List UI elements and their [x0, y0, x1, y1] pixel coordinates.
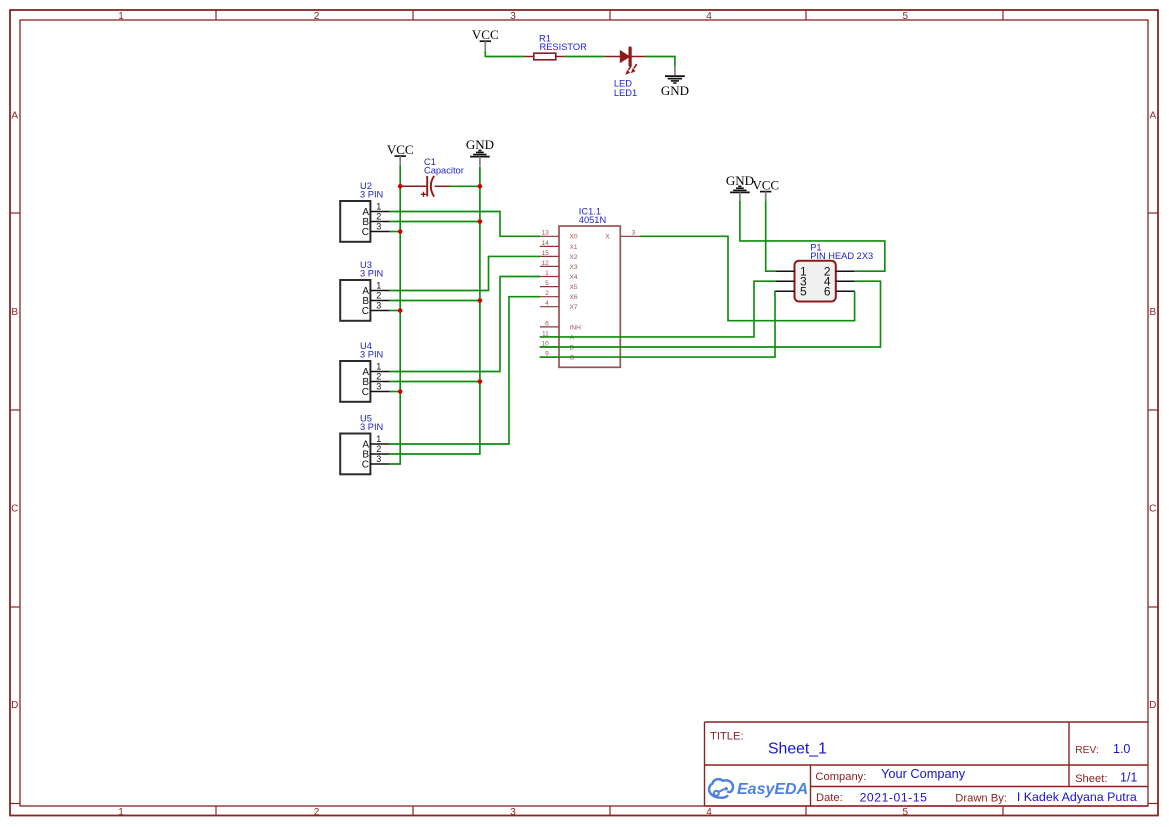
svg-text:LED1: LED1 — [614, 88, 637, 98]
wire IC1.1 pin11 A to P1 pin3 — [540, 281, 776, 337]
U2 pin 1 (A) — [370, 211, 389, 213]
svg-text:C: C — [11, 504, 18, 515]
svg-text:3 PIN: 3 PIN — [360, 349, 383, 359]
svg-text:Date:: Date: — [816, 792, 843, 804]
svg-text:B: B — [570, 344, 575, 351]
svg-text:D: D — [1149, 700, 1156, 711]
svg-text:Sheet_1: Sheet_1 — [768, 741, 827, 758]
wire U3 pin2 to GND column — [390, 300, 480, 302]
P1 pin 1 — [775, 270, 794, 272]
EasyEDA logo — [709, 779, 733, 798]
svg-text:2: 2 — [314, 11, 320, 22]
svg-text:X3: X3 — [570, 264, 578, 271]
svg-text:PIN HEAD 2X3: PIN HEAD 2X3 — [810, 251, 873, 261]
IC1.1 pin 10 (B) — [540, 346, 559, 348]
svg-text:2: 2 — [376, 212, 381, 222]
svg-text:A: A — [570, 334, 575, 341]
junction — [398, 389, 403, 394]
wire U3 pin1 to IC1.1 pin15 — [390, 256, 540, 290]
svg-text:X: X — [605, 234, 610, 241]
junction — [478, 298, 483, 303]
IC1.1 pin 9 (C) — [540, 356, 559, 358]
wire R1 to LED1 — [565, 56, 605, 58]
IC1.1 pin 6 (INH) — [540, 326, 559, 328]
svg-text:Your Company: Your Company — [881, 766, 966, 781]
svg-text:Capacitor: Capacitor — [424, 166, 464, 176]
svg-text:Company:: Company: — [815, 771, 866, 783]
U5 pin 1 (A) — [370, 443, 389, 445]
svg-text:VCC: VCC — [472, 27, 499, 42]
IC1.1 pin 5 (X5) — [540, 286, 559, 288]
wire C1 to GND column — [450, 185, 480, 187]
svg-text:5: 5 — [903, 11, 909, 22]
svg-text:D: D — [11, 700, 18, 711]
P1 pin 3 — [775, 280, 794, 282]
LED LED1 — [605, 56, 621, 58]
connector P1 PIN HEAD 2X3 body — [795, 261, 836, 302]
svg-text:C: C — [1149, 504, 1156, 515]
svg-text:X1: X1 — [570, 244, 578, 251]
U4 pin 3 (C) — [370, 391, 389, 393]
U4 pin 1 (A) — [370, 371, 389, 373]
svg-text:2: 2 — [545, 290, 549, 297]
svg-text:6: 6 — [824, 285, 831, 299]
IC1.1 pin 1 (X4) — [540, 276, 559, 278]
svg-text:3: 3 — [510, 11, 516, 22]
op-amp U1 : multiplexer IC1.1 4051N body — [559, 226, 620, 367]
svg-text:C: C — [362, 387, 369, 398]
LED1 emission arrows — [625, 64, 636, 75]
wire VCC to R1 — [485, 51, 525, 57]
wire IC1.1 pin9 C to P1 pin5 — [540, 291, 776, 357]
svg-text:X5: X5 — [570, 284, 578, 291]
capacitor C1 — [402, 185, 426, 187]
svg-text:13: 13 — [541, 230, 549, 237]
svg-text:1: 1 — [376, 434, 381, 444]
wire U2 pin3 to VCC column — [390, 231, 401, 233]
svg-text:VCC: VCC — [387, 142, 414, 157]
svg-text:Sheet:: Sheet: — [1075, 773, 1107, 785]
junction — [478, 219, 483, 224]
P1 pin 2 — [836, 270, 855, 272]
wire U4 pin2 to GND column — [390, 381, 480, 383]
U2 pin 2 (B) — [370, 221, 389, 223]
svg-text:X4: X4 — [570, 274, 578, 281]
svg-text:VCC: VCC — [752, 177, 779, 192]
IC1.1 pin 2 (X6) — [540, 296, 559, 298]
resistor R1 — [525, 56, 534, 58]
junction — [478, 379, 483, 384]
wire U3 pin3 to VCC column — [390, 310, 401, 312]
svg-text:3 PIN: 3 PIN — [360, 422, 383, 432]
svg-text:C: C — [362, 459, 369, 470]
wire GND flag to P1 pin2 — [740, 201, 885, 271]
U5 pin 3 (C) — [370, 463, 389, 465]
junction — [398, 308, 403, 313]
U2 pin 3 (C) — [370, 231, 389, 233]
svg-text:2: 2 — [376, 291, 381, 301]
svg-text:TITLE:: TITLE: — [710, 731, 744, 743]
svg-text:12: 12 — [541, 260, 549, 267]
svg-text:4: 4 — [706, 807, 712, 818]
svg-text:1.0: 1.0 — [1113, 742, 1130, 756]
svg-text:1: 1 — [376, 362, 381, 372]
frame row ticks — [10, 212, 20, 214]
U3 pin 1 (A) — [370, 290, 389, 292]
svg-text:LED: LED — [614, 79, 632, 89]
svg-text:REV:: REV: — [1075, 745, 1098, 756]
svg-text:1/1: 1/1 — [1120, 771, 1137, 785]
svg-text:1: 1 — [376, 202, 381, 212]
svg-text:3 PIN: 3 PIN — [360, 189, 383, 199]
svg-text:C: C — [362, 227, 369, 238]
junction — [478, 184, 483, 189]
frame column ticks — [215, 10, 217, 20]
svg-text:B: B — [11, 307, 18, 318]
svg-text:3: 3 — [376, 301, 381, 311]
P1 pin 4 — [836, 280, 855, 282]
IC1.1 pin 11 (A) — [540, 336, 559, 338]
wire IC1.1 pin10 B to P1 pin4 — [540, 281, 881, 347]
IC1.1 pin 13 (X0) — [540, 235, 559, 237]
IC1.1 pin 15 (X2) — [540, 255, 559, 257]
wire GND supply column — [390, 166, 480, 454]
svg-text:C: C — [362, 306, 369, 317]
connector U2 3 PIN body — [340, 201, 370, 242]
title block — [704, 722, 706, 806]
svg-text:4: 4 — [545, 300, 549, 307]
svg-text:INH: INH — [570, 324, 582, 331]
svg-text:3 PIN: 3 PIN — [360, 268, 383, 278]
svg-text:3: 3 — [376, 454, 381, 464]
IC1.1 pin 12 (X3) — [540, 265, 559, 267]
wire LED1 to GND — [645, 57, 675, 67]
junction — [398, 184, 403, 189]
U5 pin 2 (B) — [370, 453, 389, 455]
svg-text:3: 3 — [376, 382, 381, 392]
svg-text:5: 5 — [800, 285, 807, 299]
svg-text:3: 3 — [632, 230, 636, 237]
svg-text:14: 14 — [541, 240, 549, 247]
U3 pin 3 (C) — [370, 310, 389, 312]
C1 polarity plus — [421, 193, 426, 195]
svg-text:1: 1 — [376, 281, 381, 291]
svg-text:1: 1 — [118, 11, 124, 22]
svg-text:X6: X6 — [570, 294, 578, 301]
connector U5 3 PIN body — [340, 434, 370, 475]
svg-text:C: C — [570, 355, 575, 362]
svg-text:EasyEDA: EasyEDA — [737, 781, 808, 798]
junction — [398, 229, 403, 234]
svg-text:3: 3 — [510, 807, 516, 818]
svg-text:X2: X2 — [570, 254, 578, 261]
svg-text:1: 1 — [118, 807, 124, 818]
wire U4 pin3 to VCC column — [390, 391, 401, 393]
svg-text:GND: GND — [661, 83, 689, 98]
wire U5 pin1 to IC1.1 pin2 — [390, 297, 540, 444]
IC1.1 pin 3 (X output) — [620, 235, 640, 237]
svg-text:2: 2 — [376, 372, 381, 382]
U3 pin 2 (B) — [370, 300, 389, 302]
svg-text:I Kadek Adyana Putra: I Kadek Adyana Putra — [1017, 790, 1137, 804]
svg-text:X0: X0 — [570, 234, 578, 241]
wire U2 pin2 to GND column — [390, 221, 480, 223]
svg-text:1: 1 — [545, 270, 549, 277]
svg-text:5: 5 — [545, 280, 549, 287]
svg-text:4: 4 — [706, 11, 712, 22]
svg-text:RESISTOR: RESISTOR — [540, 42, 588, 52]
U4 pin 2 (B) — [370, 381, 389, 383]
IC1.1 pin 14 (X1) — [540, 245, 559, 247]
wire VCC supply column — [390, 166, 401, 464]
svg-text:Drawn By:: Drawn By: — [955, 792, 1007, 804]
P1 pin 5 — [775, 290, 794, 292]
svg-text:6: 6 — [545, 320, 549, 327]
svg-text:5: 5 — [903, 807, 909, 818]
wire U4 pin1 to IC1.1 pin1 — [390, 277, 540, 372]
svg-text:4051N: 4051N — [579, 215, 606, 225]
P1 pin 6 — [836, 290, 855, 292]
wire IC1.1 pin3 X to P1 pin6 — [640, 236, 855, 320]
svg-text:A: A — [11, 111, 18, 122]
IC1.1 pin 4 (X7) — [540, 306, 559, 308]
ground GND (after LED1) — [674, 66, 676, 75]
wire VCC flag to P1 pin1 — [766, 201, 776, 271]
svg-text:2021-01-15: 2021-01-15 — [860, 790, 928, 804]
connector U3 3 PIN body — [340, 280, 370, 321]
svg-text:B: B — [1149, 307, 1156, 318]
svg-text:X7: X7 — [570, 304, 578, 311]
svg-text:3: 3 — [376, 222, 381, 232]
svg-text:2: 2 — [314, 807, 320, 818]
wire U2 pin1 to IC1.1 pin13 — [390, 212, 540, 237]
svg-text:2: 2 — [376, 444, 381, 454]
svg-text:15: 15 — [541, 250, 549, 257]
svg-text:A: A — [1149, 111, 1156, 122]
connector U4 3 PIN body — [340, 361, 370, 402]
